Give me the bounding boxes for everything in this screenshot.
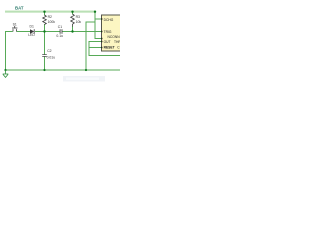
svg-text:RESET: RESET [104, 46, 115, 50]
svg-text:0.01u: 0.01u [47, 56, 56, 60]
svg-text:0.1u: 0.1u [56, 34, 63, 38]
svg-text:NCONN: NCONN [108, 35, 121, 39]
svg-text:DCHG: DCHG [104, 18, 114, 22]
svg-text:C2: C2 [47, 49, 51, 53]
svg-text:100k: 100k [48, 20, 56, 24]
svg-text:S1: S1 [13, 23, 17, 27]
svg-text:BAT: BAT [15, 5, 24, 10]
svg-text:TRIG: TRIG [104, 30, 112, 34]
svg-text:10k: 10k [76, 20, 82, 24]
svg-text:D1: D1 [30, 25, 34, 29]
svg-text:C: C [117, 46, 120, 50]
svg-text:R3: R3 [76, 15, 80, 19]
svg-text:OUT: OUT [104, 40, 111, 44]
svg-text:THR: THR [114, 40, 120, 44]
svg-text:C1: C1 [58, 25, 62, 29]
svg-text:R2: R2 [48, 15, 52, 19]
svg-text:LED: LED [28, 33, 35, 37]
